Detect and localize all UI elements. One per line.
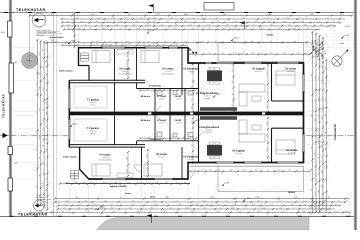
svg-text:kültéri egység: kültéri egység: [59, 70, 73, 73]
beds left rooms: [92, 51, 162, 177]
wardrobe top: [117, 50, 133, 55]
porch columns: [192, 52, 194, 54]
dimension chain interior v7: [125, 51, 129, 79]
survey circle bottom-left: [34, 200, 45, 211]
sofa bottom nappali: [239, 120, 265, 142]
dimension chain top above wall: [45, 40, 311, 44]
steps top-left: [81, 53, 89, 61]
walkway lines left: [53, 13, 55, 216]
svg-text:+4,08: +4,08: [150, 29, 155, 32]
svg-text:Hrsz (46): Hrsz (46): [37, 33, 44, 36]
svg-text:04 szoba: 04 szoba: [100, 154, 112, 157]
level marks: [231, 36, 238, 41]
dimension chain interior h2: [139, 136, 197, 140]
svg-text:03 szoba: 03 szoba: [286, 149, 298, 152]
svg-text:2,50: 2,50: [190, 107, 193, 111]
svg-text:05 szoba: 05 szoba: [163, 68, 175, 71]
boundary post 4: [8, 178, 12, 191]
svg-text:04 szoba: 04 szoba: [120, 68, 132, 71]
dimension chain bottom 2: [54, 199, 346, 203]
svg-text:08 WC: 08 WC: [175, 95, 182, 98]
svg-text:05 szoba: 05 szoba: [156, 153, 168, 156]
svg-text:07 fürdő: 07 fürdő: [157, 119, 166, 122]
svg-text:03 konyha-étkező: 03 konyha-étkező: [198, 126, 220, 129]
interior walls bottom unit: [114, 115, 116, 144]
dimension chain top 2: [61, 16, 345, 20]
svg-text:10: 10: [120, 196, 122, 199]
svg-text:+0,00: +0,00: [313, 49, 318, 52]
svg-text:1,77: 1,77: [231, 104, 234, 108]
svg-text:90: 90: [190, 98, 193, 100]
survey circle top-left: [32, 13, 46, 27]
dimension chain interior v4: [265, 63, 269, 113]
svg-text:térkő: térkő: [340, 42, 344, 45]
property boundary top: [0, 12, 354, 14]
svg-text:gépkocsi beálló: gépkocsi beálló: [110, 185, 127, 188]
svg-text:10: 10: [265, 92, 268, 94]
svg-text:fedett terasz 12,5 m²: fedett terasz 12,5 m²: [104, 182, 120, 185]
svg-text:06 kamra: 06 kamra: [141, 95, 151, 98]
dimension chain top window chain L: [61, 43, 188, 47]
svg-text:járda: járda: [149, 196, 156, 199]
svg-text:26,20 m²: 26,20 m²: [235, 152, 242, 155]
svg-text:1,20: 1,20: [265, 73, 268, 77]
dimension chain left 3: [42, 41, 46, 208]
svg-text:01 előszoba: 01 előszoba: [183, 68, 198, 71]
svg-text:+0,00: +0,00: [197, 41, 203, 44]
svg-text:+0,00: +0,00: [71, 39, 76, 42]
svg-text:2,10: 2,10: [210, 196, 214, 199]
svg-text:26,20 m²: 26,20 m²: [255, 70, 262, 73]
kitchen table bottom: [207, 145, 222, 156]
svg-text:90: 90: [328, 196, 330, 199]
dimension chain interior v1: [190, 63, 194, 113]
svg-text:2,88: 2,88: [267, 13, 271, 16]
dimension chain top 3: [61, 20, 341, 24]
dimension chain bottom 4: [57, 206, 335, 210]
svg-text:08 WC: 08 WC: [175, 119, 182, 122]
svg-text:4,70 m²: 4,70 m²: [158, 98, 164, 101]
svg-text:10: 10: [75, 196, 77, 199]
dimension chain interior v5: [265, 117, 269, 163]
svg-text:greslap: greslap: [204, 97, 210, 100]
svg-text:2,10: 2,10: [265, 105, 268, 109]
svg-text:TELEKHATÁR: TELEKHATÁR: [16, 7, 46, 12]
windows bottom wall left: [102, 178, 126, 180]
svg-text:10: 10: [231, 70, 234, 72]
svg-text:02 nappali: 02 nappali: [252, 68, 265, 71]
dimension chain left 4: [45, 42, 49, 211]
svg-text:TELEKHATÁR: TELEKHATÁR: [333, 124, 337, 140]
boundary post 3: [8, 147, 12, 155]
svg-text:1,50 m²: 1,50 m²: [175, 122, 181, 125]
dimension chain top 5: [63, 27, 320, 31]
slab edge below bottom-left wall: [66, 182, 190, 184]
windows top wall left: [102, 47, 125, 49]
svg-text:terasz: terasz: [288, 191, 296, 194]
property boundary bottom: [0, 215, 354, 217]
dimension chain right 5: [324, 59, 328, 211]
svg-text:12,12 m²: 12,12 m²: [158, 156, 165, 159]
dimension chain left 1: [35, 39, 39, 206]
axis dash line: [0, 135, 69, 137]
svg-text:45: 45: [125, 55, 128, 57]
svg-text:02 nappali: 02 nappali: [232, 150, 245, 153]
svg-text:laminált parketta: laminált parketta: [161, 72, 174, 75]
windows top wall right: [205, 62, 212, 64]
tiny number cluster top-right: [311, 40, 326, 61]
svg-text:kültéri egység: kültéri egység: [63, 156, 77, 159]
party wall band: [69, 112, 303, 116]
svg-text:TJ garázs: TJ garázs: [87, 99, 100, 102]
svg-text:45: 45: [231, 93, 234, 95]
axis marker triangle: [3, 133, 8, 138]
svg-text:-0,90: -0,90: [225, 181, 229, 184]
svg-text:1,00: 1,00: [14, 162, 18, 165]
kitchen table top: [207, 71, 222, 82]
dimension chain interior h1: [139, 88, 196, 92]
svg-text:1,00: 1,00: [182, 136, 186, 139]
svg-text:12,80 m²: 12,80 m²: [287, 70, 294, 73]
dimension chain right 3: [317, 35, 321, 213]
svg-text:beton: beton: [91, 103, 96, 106]
svg-text:2,06: 2,06: [1, 31, 5, 34]
svg-text:3,00: 3,00: [265, 148, 268, 152]
dimension chain top window chain R: [189, 52, 311, 56]
svg-text:TJ garázs: TJ garázs: [87, 127, 100, 130]
svg-text:TELEKHATÁR: TELEKHATÁR: [2, 93, 6, 118]
svg-text:1,50 m²: 1,50 m²: [175, 98, 181, 101]
svg-text:laminált parketta: laminált parketta: [98, 158, 111, 161]
svg-text:1,40: 1,40: [265, 134, 268, 138]
svg-text:1,00: 1,00: [145, 154, 148, 158]
svg-text:2,88: 2,88: [125, 169, 128, 173]
svg-text:2,88: 2,88: [184, 13, 188, 16]
door arc lower room: [135, 165, 142, 172]
svg-text:+0,15: +0,15: [344, 34, 349, 37]
dimension chain bottom window chain L: [59, 181, 190, 185]
svg-text:1,00: 1,00: [14, 61, 18, 64]
svg-text:+4,08: +4,08: [246, 197, 251, 200]
svg-text:1,20: 1,20: [255, 196, 259, 199]
bath fixtures: [157, 91, 193, 138]
svg-text:±0,00: ±0,00: [195, 119, 200, 122]
svg-text:3,00: 3,00: [125, 157, 128, 161]
terrace top-right outline: [218, 43, 304, 62]
svg-text:terasz: terasz: [267, 34, 275, 37]
dimension chain interior v2: [190, 117, 194, 164]
svg-text:25: 25: [128, 13, 130, 16]
dimension chain bottom window chain R: [189, 169, 311, 173]
svg-text:5,74: 5,74: [91, 13, 95, 16]
dimension chain right 4: [320, 37, 324, 210]
interior walls top unit: [136, 48, 138, 81]
svg-text:terasz: terasz: [125, 192, 131, 195]
svg-text:06 kamra: 06 kamra: [141, 119, 151, 122]
bed right top: [276, 71, 295, 85]
road gray band: [97, 218, 309, 230]
svg-text:5,74: 5,74: [142, 136, 146, 139]
building outer walls: [79, 47, 189, 49]
svg-text:1,20: 1,20: [49, 13, 53, 16]
svg-text:09 kazánház: 09 kazánház: [149, 138, 161, 141]
property boundary left: [8, 0, 10, 217]
svg-text:10 kazánház: 10 kazánház: [149, 85, 161, 88]
svg-text:beton: beton: [91, 132, 96, 135]
kitchen counters: [200, 107, 237, 111]
svg-text:4,70 m²: 4,70 m²: [158, 122, 164, 125]
property boundary right: [353, 0, 355, 230]
dimension chain interior v8: [125, 151, 129, 177]
dimension chain bottom 3: [57, 203, 341, 207]
dimension chain right 1: [310, 31, 314, 214]
svg-text:4,50: 4,50: [310, 13, 314, 16]
svg-text:0,90: 0,90: [223, 13, 227, 16]
svg-text:5,74: 5,74: [340, 13, 344, 16]
witness lines sides: [14, 48, 330, 179]
svg-text:2,88: 2,88: [165, 196, 169, 199]
svg-text:1,40: 1,40: [156, 13, 160, 16]
svg-text:5,20 m²: 5,20 m²: [187, 158, 193, 161]
faint survey grid top-right: [300, 32, 356, 51]
svg-text:2,06: 2,06: [1, 101, 5, 104]
tree: [22, 53, 38, 69]
svg-text:03 szoba: 03 szoba: [285, 68, 297, 71]
svg-text:07 fürdő: 07 fürdő: [157, 95, 166, 98]
terrace bottom-right outline: [218, 166, 304, 191]
title box: [204, 3, 234, 11]
svg-text:5,74: 5,74: [294, 196, 298, 199]
dimension chain bottom 1: [54, 196, 350, 200]
flag bottom-center: [146, 214, 151, 223]
svg-text:-0,02: -0,02: [216, 93, 220, 96]
svg-text:+4,08: +4,08: [345, 25, 350, 28]
svg-text:2,35: 2,35: [265, 122, 268, 126]
svg-text:5,20 m²: 5,20 m²: [187, 70, 193, 73]
dimension chain interior v3: [231, 63, 235, 113]
door swings: [156, 49, 205, 179]
svg-text:01 előszoba: 01 előszoba: [183, 156, 198, 159]
boundary post 2: [9, 63, 13, 93]
dimension chain left small top: [72, 12, 76, 48]
svg-text:1,20: 1,20: [125, 63, 128, 67]
boundary post 1: [8, 21, 12, 37]
svg-text:+0,00: +0,00: [234, 36, 239, 39]
steps bottom-left entrance: [71, 171, 79, 179]
svg-text:greslap: greslap: [206, 131, 212, 134]
windows bottom wall right: [216, 161, 234, 163]
bed right bottom: [276, 140, 295, 154]
svg-text:laminált parketta: laminált parketta: [118, 72, 131, 75]
garage doors left wall: [68, 88, 70, 109]
compass circle: [332, 50, 349, 67]
note text top-left: [36, 31, 62, 36]
dimension chain bottom 5: [29, 210, 351, 214]
dimension chain top 1: [29, 13, 353, 17]
dimension chain left 2: [38, 40, 42, 205]
svg-text:2,88: 2,88: [231, 81, 234, 85]
svg-text:40,20 m²: 40,20 m²: [50, 41, 57, 44]
cars in garages: [74, 86, 107, 108]
flag top-center-right: [239, 21, 244, 29]
flag top-center-left: [148, 4, 153, 11]
svg-text:1,40: 1,40: [145, 167, 148, 171]
svg-text:30: 30: [190, 145, 193, 147]
dimension chain top 4: [61, 23, 336, 27]
dimension chain right 2: [313, 33, 317, 213]
svg-text:12,80 m²: 12,80 m²: [288, 152, 295, 155]
sofa top nappali: [239, 84, 265, 106]
witness lines top: [69, 16, 303, 212]
svg-text:-0,02: -0,02: [73, 122, 77, 125]
windows right wall: [302, 74, 304, 92]
dimension chain interior v6: [145, 149, 149, 177]
svg-text:+0,00: +0,00: [100, 205, 105, 208]
